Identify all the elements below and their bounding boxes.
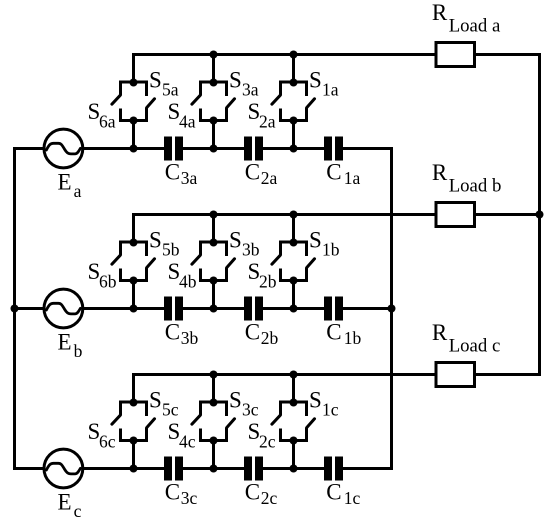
node: bus junction a2 bbox=[210, 51, 218, 59]
node: bus junction b3 bbox=[290, 211, 298, 219]
wire: bus of phase c bbox=[134, 375, 436, 403]
node: bottom junction S1c/S2c bbox=[290, 437, 298, 445]
svg-text:1c: 1c bbox=[344, 488, 361, 508]
label C1b bbox=[326, 320, 361, 348]
label C3b bbox=[165, 320, 199, 348]
label C3a bbox=[165, 160, 198, 188]
svg-text:S: S bbox=[149, 68, 162, 93]
label S3a bbox=[229, 68, 259, 100]
svg-text:6a: 6a bbox=[99, 112, 116, 132]
switch S4a bbox=[192, 82, 201, 121]
node: left rail junction at phase b bbox=[11, 305, 19, 313]
node: bottom junction S3c/S4c bbox=[210, 437, 218, 445]
node: bottom junction S3b/S4b bbox=[210, 277, 218, 285]
svg-text:S: S bbox=[149, 228, 162, 253]
switch pair S5a/S6a top bar bbox=[119, 81, 148, 84]
label S2b bbox=[248, 259, 277, 292]
svg-text:R: R bbox=[432, 320, 448, 345]
label S2a bbox=[248, 99, 276, 132]
svg-text:S: S bbox=[229, 228, 242, 253]
svg-text:S: S bbox=[149, 388, 162, 413]
switch pair S5a/S6a bottom bar bbox=[119, 119, 148, 122]
switch S2a bbox=[272, 82, 281, 121]
node: phase wire junction 2a bbox=[210, 145, 218, 153]
svg-text:C: C bbox=[245, 160, 260, 185]
wire: left rail to Eb bbox=[13, 307, 45, 310]
AC source Ea bbox=[44, 129, 83, 168]
wire: stub S pair 2c to phase wire bbox=[212, 441, 215, 469]
svg-text:2c: 2c bbox=[261, 488, 278, 508]
node: phase wire junction 3c bbox=[290, 465, 298, 473]
wire: stub S pair 1c to phase wire bbox=[132, 441, 135, 469]
svg-text:3c: 3c bbox=[242, 400, 259, 420]
node: phase wire junction 2b bbox=[210, 305, 218, 313]
node: top junction S1c/S2c bbox=[290, 399, 298, 407]
resistor R Load a bbox=[436, 43, 475, 67]
svg-text:C: C bbox=[165, 320, 180, 345]
label Ec bbox=[58, 489, 82, 521]
switch pair S1a/S2a bottom bar bbox=[279, 119, 308, 122]
node: mid rail junction at phase b bbox=[388, 305, 396, 313]
capacitor C2c bbox=[244, 457, 263, 481]
label C2b bbox=[245, 320, 279, 348]
svg-text:4a: 4a bbox=[179, 112, 196, 132]
svg-text:E: E bbox=[58, 489, 72, 514]
capacitor C1b bbox=[324, 297, 343, 321]
wire: stub S pair 2a to phase wire bbox=[212, 121, 215, 149]
svg-text:S: S bbox=[229, 388, 242, 413]
switch S3a bbox=[227, 82, 235, 121]
label S6a bbox=[88, 99, 116, 132]
wire: left rail to Ec bbox=[13, 467, 45, 470]
label S5a bbox=[149, 68, 179, 100]
switch S6c bbox=[112, 402, 121, 441]
svg-text:S: S bbox=[229, 68, 242, 93]
svg-text:1b: 1b bbox=[322, 240, 340, 260]
wire: phase b line bbox=[82, 307, 393, 310]
svg-text:C: C bbox=[326, 320, 341, 345]
svg-text:2b: 2b bbox=[259, 272, 277, 292]
svg-text:1a: 1a bbox=[322, 80, 339, 100]
svg-text:C: C bbox=[245, 320, 260, 345]
svg-text:2b: 2b bbox=[261, 328, 279, 348]
node: bottom junction S1a/S2a bbox=[290, 117, 298, 125]
svg-text:5a: 5a bbox=[162, 80, 179, 100]
switch pair S3a/S4a top bar bbox=[199, 81, 228, 84]
svg-text:a: a bbox=[74, 181, 82, 201]
wire: phase c line bbox=[82, 467, 393, 470]
switch S2c bbox=[272, 402, 281, 441]
switch S1a bbox=[307, 82, 315, 121]
label C3c bbox=[165, 480, 198, 508]
svg-text:3c: 3c bbox=[181, 488, 198, 508]
wire: R Load b to right rail bbox=[474, 213, 542, 216]
label R Load c bbox=[432, 320, 500, 357]
svg-text:3b: 3b bbox=[181, 328, 199, 348]
node: phase wire junction 2c bbox=[210, 465, 218, 473]
node: bottom junction S5a/S6a bbox=[130, 117, 138, 125]
label Eb bbox=[58, 329, 83, 361]
node: phase wire junction 3a bbox=[290, 145, 298, 153]
svg-text:b: b bbox=[74, 341, 83, 361]
switch pair S3c/S4c top bar bbox=[199, 401, 228, 404]
svg-text:3a: 3a bbox=[242, 80, 259, 100]
svg-text:S: S bbox=[309, 388, 322, 413]
node: phase wire junction 3b bbox=[290, 305, 298, 313]
label Ea bbox=[58, 169, 82, 201]
svg-text:C: C bbox=[165, 160, 180, 185]
switch S1b bbox=[307, 242, 315, 281]
AC source Eb bbox=[44, 289, 83, 328]
svg-text:6b: 6b bbox=[99, 272, 117, 292]
node: bus junction c2 bbox=[210, 371, 218, 379]
label R Load a bbox=[432, 0, 501, 37]
svg-text:4b: 4b bbox=[179, 272, 197, 292]
label S3b bbox=[229, 228, 260, 260]
svg-text:3a: 3a bbox=[181, 168, 198, 188]
node: right rail junction at load b bbox=[536, 211, 544, 219]
capacitor C1a bbox=[324, 137, 343, 161]
switch S1c bbox=[307, 402, 315, 441]
switch pair S5b/S6b top bar bbox=[119, 241, 148, 244]
switch S5c bbox=[147, 402, 155, 441]
node: top junction S3c/S4c bbox=[210, 399, 218, 407]
node: bottom junction S5c/S6c bbox=[130, 437, 138, 445]
svg-text:5c: 5c bbox=[162, 400, 179, 420]
label S4a bbox=[168, 99, 196, 132]
svg-text:Load a: Load a bbox=[449, 16, 501, 37]
label S5b bbox=[149, 228, 180, 260]
svg-text:E: E bbox=[58, 169, 72, 194]
wire: stub S pair 1b to phase wire bbox=[132, 281, 135, 309]
svg-text:2c: 2c bbox=[259, 432, 276, 452]
label S1c bbox=[309, 388, 339, 420]
switch S4b bbox=[192, 242, 201, 281]
svg-text:C: C bbox=[165, 480, 180, 505]
node: bus junction a3 bbox=[290, 51, 298, 59]
wire: stub S pair 1a to phase wire bbox=[132, 121, 135, 149]
wire: R Load c to right rail bbox=[474, 373, 542, 376]
wire: bus stubs phase a bbox=[214, 55, 294, 83]
wire: bus stubs phase c bbox=[214, 375, 294, 403]
wire: left rail to Ea bbox=[13, 147, 45, 150]
capacitor C3a bbox=[164, 137, 183, 161]
label C2c bbox=[245, 480, 278, 508]
node: phase wire junction 1b bbox=[130, 305, 138, 313]
svg-text:S: S bbox=[309, 228, 322, 253]
capacitor C2b bbox=[244, 297, 263, 321]
svg-text:2a: 2a bbox=[259, 112, 276, 132]
svg-text:C: C bbox=[245, 480, 260, 505]
wire: stub S pair 3a to phase wire bbox=[292, 121, 295, 149]
label R Load b bbox=[432, 160, 501, 197]
switch pair S1a/S2a top bar bbox=[279, 81, 308, 84]
label S4b bbox=[168, 259, 197, 292]
switch pair S3a/S4a bottom bar bbox=[199, 119, 228, 122]
label S6c bbox=[88, 419, 116, 452]
switch pair S3c/S4c bottom bar bbox=[199, 439, 228, 442]
node: phase wire junction 1a bbox=[130, 145, 138, 153]
svg-text:C: C bbox=[326, 160, 341, 185]
wire: stub S pair 2b to phase wire bbox=[212, 281, 215, 309]
svg-text:5b: 5b bbox=[162, 240, 180, 260]
label S1b bbox=[309, 228, 340, 260]
node: bus junction b2 bbox=[210, 211, 218, 219]
wire: R Load a to right rail bbox=[474, 53, 542, 56]
svg-text:3b: 3b bbox=[242, 240, 260, 260]
switch S4c bbox=[192, 402, 201, 441]
wire: right rail (load common) bbox=[538, 53, 541, 376]
svg-text:6c: 6c bbox=[99, 432, 116, 452]
svg-text:R: R bbox=[432, 160, 448, 185]
svg-text:1a: 1a bbox=[344, 168, 361, 188]
label S3c bbox=[229, 388, 259, 420]
node: top junction S3b/S4b bbox=[210, 239, 218, 247]
label S5c bbox=[149, 388, 179, 420]
wire: stub S pair 3c to phase wire bbox=[292, 441, 295, 469]
svg-text:4c: 4c bbox=[179, 432, 196, 452]
switch S5a bbox=[147, 82, 155, 121]
node: bottom junction S1b/S2b bbox=[290, 277, 298, 285]
switch pair S1b/S2b bottom bar bbox=[279, 279, 308, 282]
label S6b bbox=[88, 259, 117, 292]
label S4c bbox=[168, 419, 196, 452]
wire: phase a line bbox=[82, 147, 393, 150]
node: phase wire junction 1c bbox=[130, 465, 138, 473]
svg-text:Load b: Load b bbox=[449, 176, 502, 197]
node: top junction S3a/S4a bbox=[210, 79, 218, 87]
switch pair S5c/S6c top bar bbox=[119, 401, 148, 404]
capacitor C3b bbox=[164, 297, 183, 321]
node: top junction S5a/S6a bbox=[130, 79, 138, 87]
node: top junction S1b/S2b bbox=[290, 239, 298, 247]
node: top junction S1a/S2a bbox=[290, 79, 298, 87]
label C1a bbox=[326, 160, 360, 188]
switch pair S3b/S4b bottom bar bbox=[199, 279, 228, 282]
svg-text:Load c: Load c bbox=[449, 336, 501, 357]
svg-text:E: E bbox=[58, 329, 72, 354]
switch S5b bbox=[147, 242, 155, 281]
node: bus junction c3 bbox=[290, 371, 298, 379]
switch S3c bbox=[227, 402, 235, 441]
wire: bus of phase b bbox=[134, 215, 436, 243]
switch pair S1c/S2c bottom bar bbox=[279, 439, 308, 442]
switch pair S5b/S6b bottom bar bbox=[119, 279, 148, 282]
node: top junction S5b/S6b bbox=[130, 239, 138, 247]
wire: left rail (source common) bbox=[13, 147, 16, 470]
label C2a bbox=[245, 160, 278, 188]
resistor R Load b bbox=[436, 203, 475, 227]
capacitor C3c bbox=[164, 457, 183, 481]
wire: bus of phase a bbox=[134, 55, 436, 83]
switch S3b bbox=[227, 242, 235, 281]
switch S6b bbox=[112, 242, 121, 281]
label S1a bbox=[309, 68, 339, 100]
svg-text:2a: 2a bbox=[261, 168, 278, 188]
resistor R Load c bbox=[436, 363, 475, 387]
switch S6a bbox=[112, 82, 121, 121]
switch pair S1c/S2c top bar bbox=[279, 401, 308, 404]
label C1c bbox=[326, 480, 360, 508]
svg-text:c: c bbox=[74, 501, 82, 521]
switch pair S3b/S4b top bar bbox=[199, 241, 228, 244]
svg-text:C: C bbox=[326, 480, 341, 505]
switch S2b bbox=[272, 242, 281, 281]
node: top junction S5c/S6c bbox=[130, 399, 138, 407]
AC source Ec bbox=[44, 449, 83, 488]
switch pair S1b/S2b top bar bbox=[279, 241, 308, 244]
label S2c bbox=[248, 419, 276, 452]
wire: bus stubs phase b bbox=[214, 215, 294, 243]
svg-text:R: R bbox=[432, 0, 448, 25]
wire: stub S pair 3b to phase wire bbox=[292, 281, 295, 309]
capacitor C2a bbox=[244, 137, 263, 161]
switch pair S5c/S6c bottom bar bbox=[119, 439, 148, 442]
node: bottom junction S5b/S6b bbox=[130, 277, 138, 285]
capacitor C1c bbox=[324, 457, 343, 481]
svg-text:1b: 1b bbox=[344, 328, 362, 348]
svg-text:1c: 1c bbox=[322, 400, 339, 420]
wire: mid rail (capacitor star point) bbox=[390, 147, 393, 470]
node: bottom junction S3a/S4a bbox=[210, 117, 218, 125]
svg-text:S: S bbox=[309, 68, 322, 93]
